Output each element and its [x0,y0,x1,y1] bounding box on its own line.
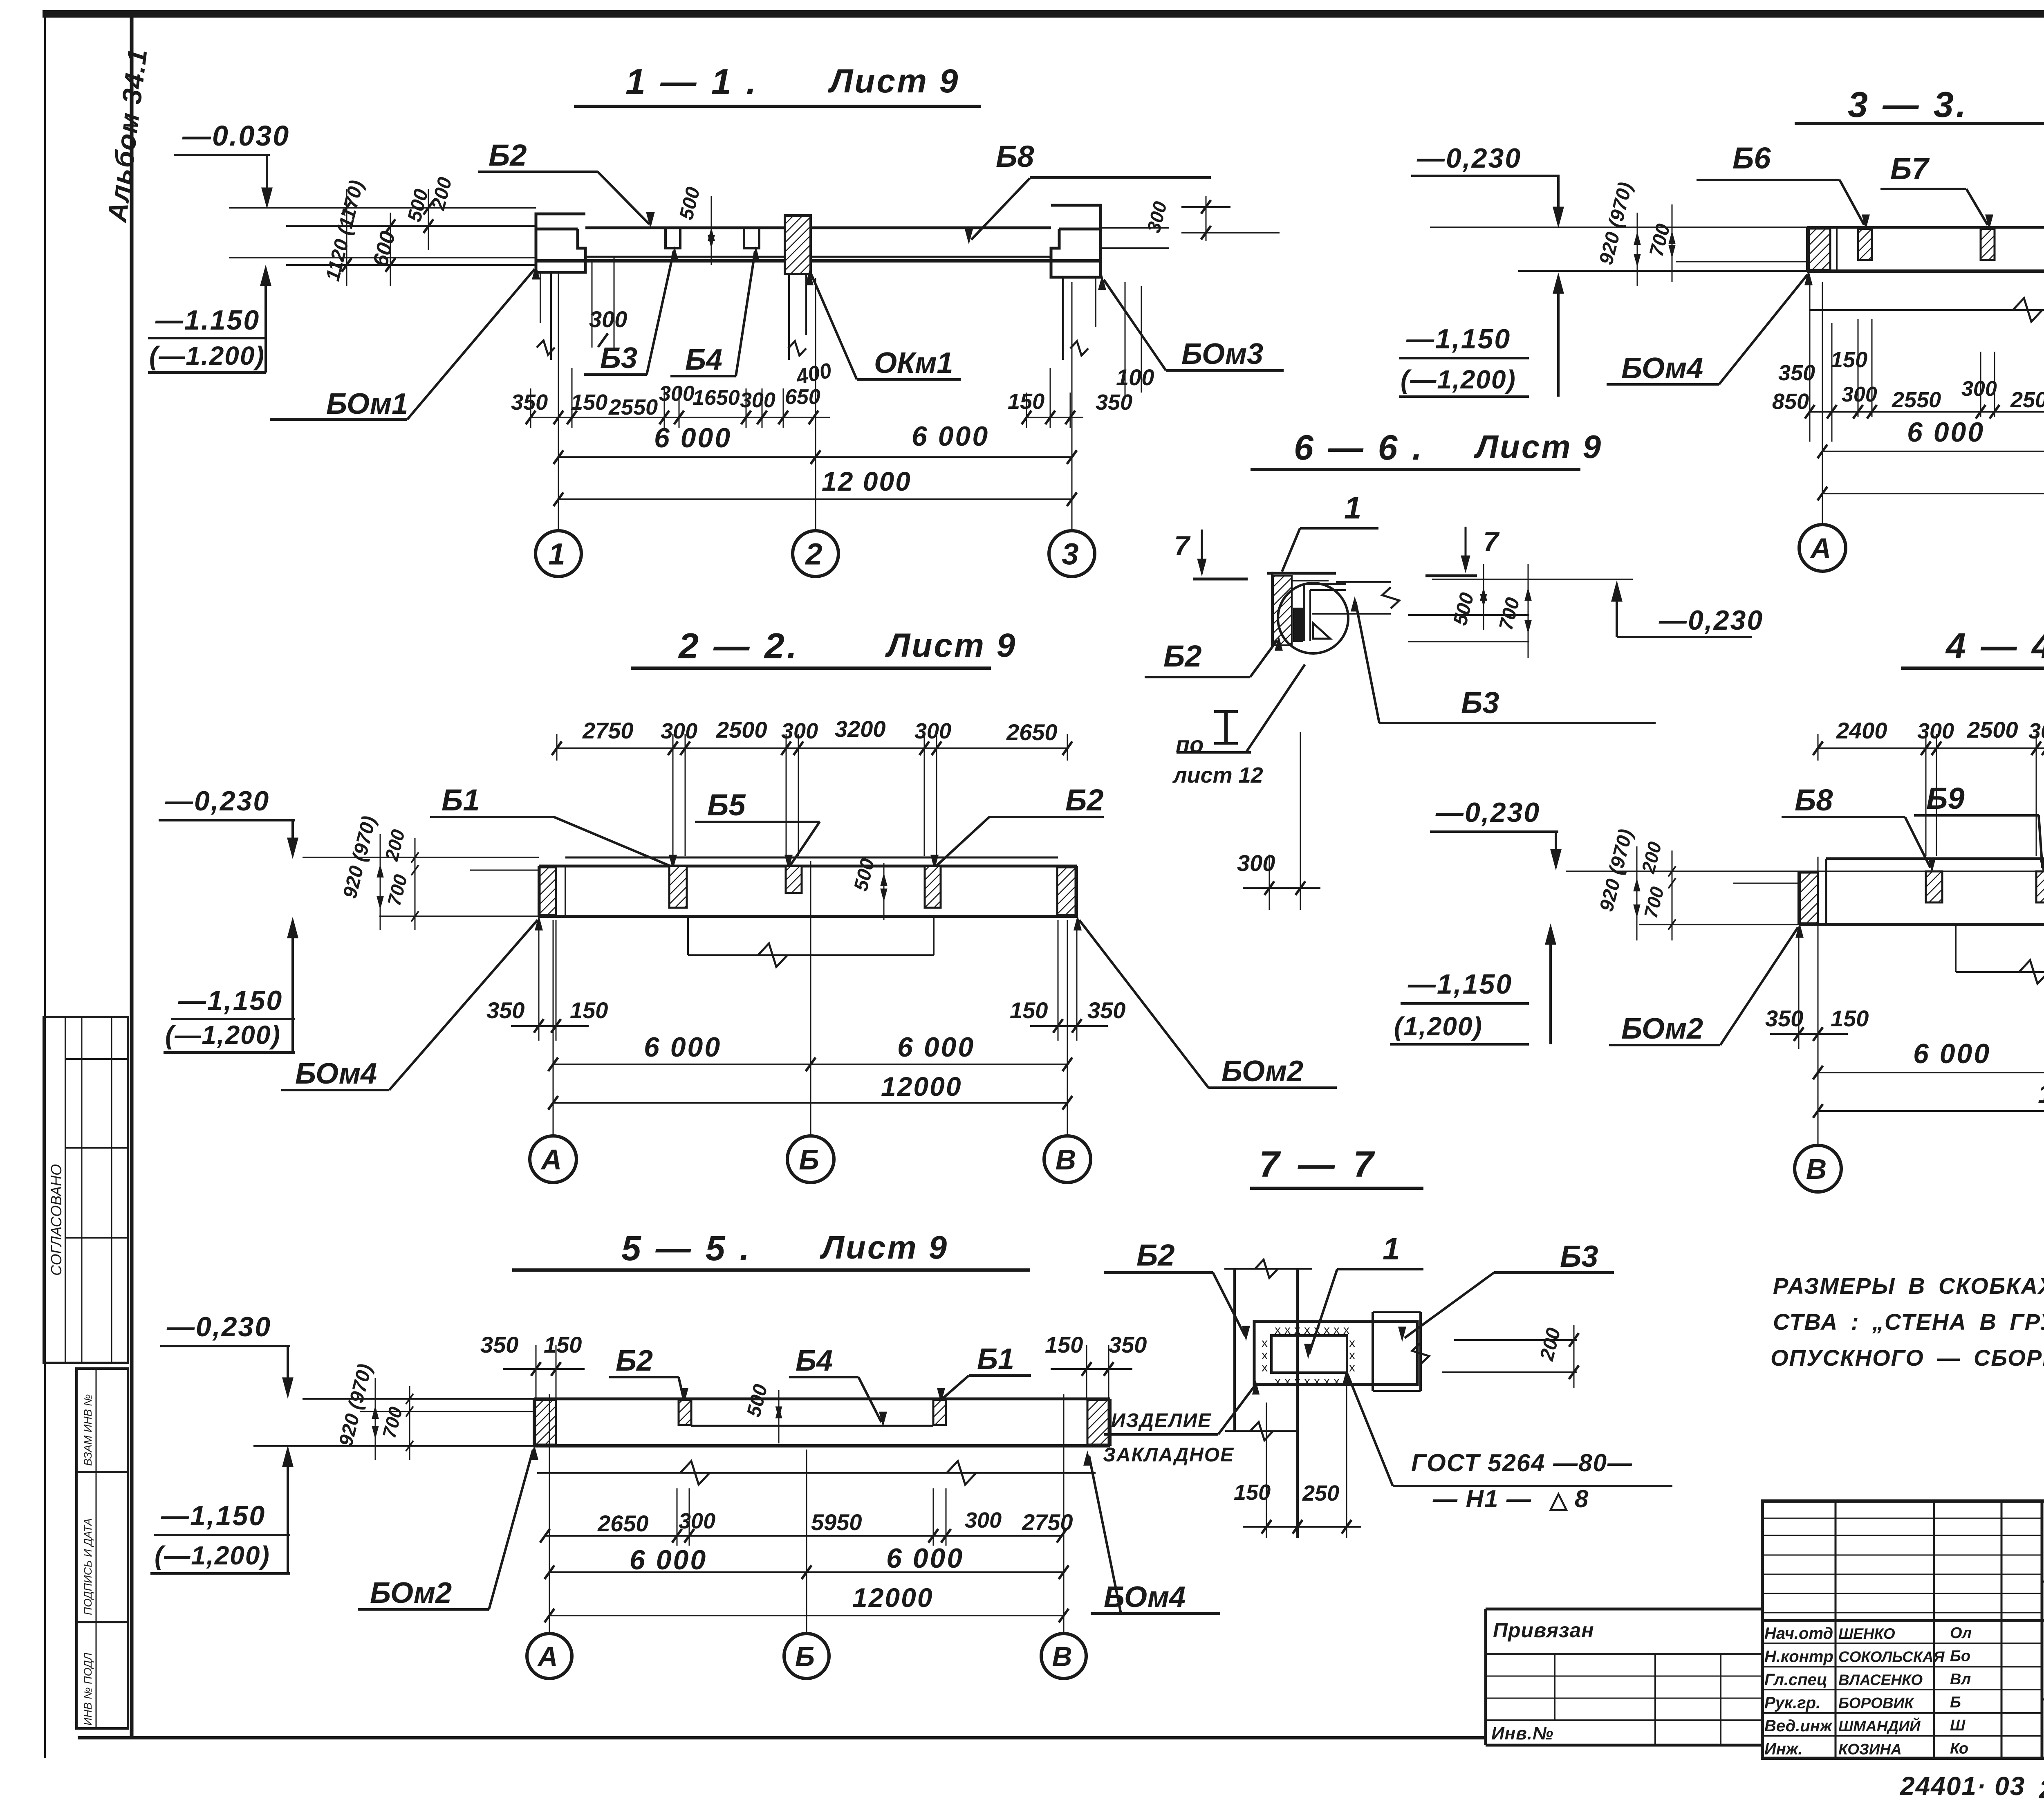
svg-text:А: А [1810,532,1831,564]
svg-text:Б4: Б4 [685,343,722,376]
detail 6-6 bracket [1267,572,1346,648]
svg-text:ИЗДЕЛИЕ: ИЗДЕЛИЕ [1111,1410,1212,1432]
beam 2-2 left hatch [540,867,556,915]
svg-text:x: x [1324,1323,1330,1337]
elevation -0.230 (2-2) [159,785,298,857]
top dim chain 2-2 [552,734,1072,856]
label БОм4 leader (2-2) [281,918,542,1090]
axis circle 1 [536,531,581,577]
elevation -0.030 text [182,120,290,152]
svg-text:Б2: Б2 [1136,1238,1175,1272]
signature table columns [1836,1501,2042,1758]
svg-text:350: 350 [1087,997,1125,1023]
view mark лист 12 [1172,763,1263,788]
dim 500 rotated (2-2) [850,856,887,920]
svg-text:x: x [1284,1375,1291,1388]
beam 2-2 recess bracket [688,916,934,967]
svg-text:x: x [1324,1375,1330,1388]
label Привязан [1493,1619,1594,1642]
svg-text:Бо: Бо [1950,1648,1970,1665]
description divider [2042,1699,2044,1701]
label БОм2 leader (5-5) [358,1447,538,1609]
svg-text:500: 500 [850,856,879,893]
beam 4-4 pocket Б8 [1926,871,1942,902]
beam 4-4 ext lines [1566,871,1799,925]
dim 6000 texts 2-2 [644,1032,975,1063]
label Б9 (4-4) [1914,781,2044,870]
svg-text:x: x [1349,1349,1355,1362]
svg-text:150: 150 [1831,348,1867,372]
svg-text:СОКОЛЬСКАЯ: СОКОЛЬСКАЯ [1838,1649,1945,1665]
svg-text:200: 200 [1536,1326,1565,1363]
beam 2-2 pocket Б1 [669,866,687,908]
label Б1 (5-5) [938,1343,1031,1401]
beam 1-1 bottom line [536,257,1100,261]
svg-text:x: x [1314,1323,1320,1337]
svg-text:—0.030: —0.030 [182,120,290,152]
dim line 6000 4-4 [1813,1066,2044,1079]
dim line 6000 2-2 [548,1057,1072,1071]
axis lines 2-2 [553,861,1067,1136]
svg-text:—0,230: —0,230 [1416,143,1522,174]
svg-text:x: x [1343,1323,1349,1337]
svg-text:БОм2: БОм2 [370,1577,452,1609]
svg-text:ШМАНДИЙ: ШМАНДИЙ [1838,1717,1921,1735]
svg-text:РАЗМЕРЫ В СКОБКАХ ДЛЯ СПОС: РАЗМЕРЫ В СКОБКАХ ДЛЯ СПОСОБОВ СТРОИТЕЛЬ… [1773,1273,2044,1299]
svg-text:Б3: Б3 [1461,686,1499,720]
dim 920 (970) rotated (2-2) [339,814,383,930]
svg-text:5950: 5950 [811,1509,862,1535]
svg-text:Б7: Б7 [1890,152,1930,186]
svg-text:2650: 2650 [1006,719,1058,745]
svg-text:150: 150 [1234,1480,1271,1505]
label БОм4 leader (5-5) [1084,1453,1220,1614]
section 4-4 title underline [1901,667,2044,670]
beam 1-1 top line [585,227,1051,229]
beam 3-3 break line [1809,298,2044,322]
svg-text:300: 300 [1961,377,1997,401]
svg-text:7: 7 [1483,526,1500,557]
svg-text:4 — 4 .: 4 — 4 . [1945,626,2044,666]
svg-text:920 (970): 920 (970) [1595,180,1636,267]
svg-text:Б3: Б3 [600,342,637,375]
svg-text:Б: Б [799,1144,819,1176]
beam 2-2 right hatch [1057,867,1076,915]
label БОм1 leader [270,267,539,420]
svg-text:150: 150 [1045,1332,1083,1358]
axis circle В (4-4) [1795,1145,1841,1192]
dim 100 near axis 3 [1116,282,1154,399]
elevation -1.150 (5-5) [150,1448,293,1573]
svg-text:—1,150: —1,150 [178,985,283,1016]
beam 4-4 recess bracket [1956,925,2044,984]
svg-text:СТВА : „СТЕНА В ГРУНТЕ” ;: СТВА : „СТЕНА В ГРУНТЕ” ; [1773,1309,2044,1335]
beam 5-5 break line [537,1461,1096,1485]
label Б4 (5-5) [789,1344,886,1425]
svg-text:Привязан: Привязан [1493,1619,1594,1642]
svg-text:150: 150 [1010,997,1048,1023]
svg-text:350: 350 [480,1332,518,1358]
margin cells grid [76,1369,128,1728]
svg-text:(—1,200): (—1,200) [165,1020,281,1050]
dim 920 (970) rotated (5-5) [335,1362,378,1460]
svg-text:БОм3: БОм3 [1181,338,1263,370]
label ГОСТ 5264-80 [1344,1371,1672,1513]
label Б3 leader [584,249,678,375]
svg-text:1120 (1170): 1120 (1170) [322,178,368,283]
label БОм2 leader (4-4) [1609,925,1803,1045]
label Б2 (1-1) [478,138,654,226]
svg-text:Ш: Ш [1950,1717,1966,1734]
beam 2-2 body [539,857,1077,916]
svg-text:—0,230: —0,230 [165,785,270,817]
svg-text:150: 150 [544,1332,582,1358]
svg-text:12000: 12000 [881,1071,962,1102]
dim 400 text [793,359,834,389]
svg-text:x: x [1304,1323,1310,1337]
label Б3 leader (7-7) [1399,1239,1614,1340]
dim 12000 text 2-2 [881,1071,962,1102]
svg-text:300: 300 [1842,383,1877,406]
svg-text:6 000: 6 000 [630,1544,707,1575]
beam 3-3 left hatch [1809,227,1837,271]
dim 350-150 left (4-4) [1765,927,1869,1049]
svg-text:5 — 5 .: 5 — 5 . [621,1229,752,1268]
svg-text:БОРОВИК: БОРОВИК [1838,1695,1914,1712]
svg-text:ОКм1: ОКм1 [874,347,953,379]
label БОм3 leader [1099,277,1284,370]
label ПОДПИСЬ И ДАТА [82,1518,94,1615]
svg-text:В: В [1052,1641,1072,1672]
wall pier axis 1 stubs [537,272,555,360]
svg-text:2500: 2500 [716,717,767,743]
svg-text:7 — 7: 7 — 7 [1259,1144,1378,1185]
attachment block grid [1486,1609,1762,1745]
dim 300 below wall 1 [589,257,627,348]
axis lines 4-4 [1818,857,2044,1145]
section 1-1 title underline [574,105,981,108]
svg-text:Б6: Б6 [1732,141,1771,175]
beam 3-3 body [1807,227,2044,271]
dim lines right 6-6 [1408,579,1633,642]
svg-text:В: В [1056,1144,1076,1176]
notes line 1 [1773,1273,2044,1299]
svg-text:x: x [1262,1336,1268,1350]
beam 5-5 left hatch [535,1400,556,1445]
svg-text:24401· 03: 24401· 03 [1900,1771,2025,1801]
dim line 12000 3-3 [1818,487,2044,500]
svg-text:Гл.спец: Гл.спец [1764,1671,1827,1689]
svg-text:6 000: 6 000 [644,1032,722,1063]
svg-text:Нач.отд: Нач.отд [1764,1625,1833,1643]
svg-text:x: x [1294,1323,1300,1337]
beam 3-3 pocket Б7 [1981,229,1995,260]
label ОКм1 leader [806,272,961,379]
svg-text:700: 700 [1495,595,1524,633]
svg-text:300: 300 [2028,719,2044,743]
beam 2-2 pocket Б5 [786,866,802,893]
svg-text:150: 150 [1008,389,1044,414]
elevation -0.230 (4-4) [1430,797,1561,868]
svg-text:—1.150: —1.150 [155,305,260,336]
svg-text:ПОДПИСЬ И ДАТА: ПОДПИСЬ И ДАТА [82,1518,94,1615]
axis lines 3-3 [1822,282,2044,525]
dim 300 (6-6) [1237,732,1320,910]
dim 500 pocket rotated [675,185,714,265]
svg-text:300: 300 [1917,719,1954,743]
svg-text:Б2: Б2 [1163,639,1202,673]
section 5-5 title underline [512,1268,1030,1272]
svg-text:Лист 9: Лист 9 [820,1229,948,1266]
section 7-7 title [1259,1144,1378,1185]
beam 1-1 right extension [1100,228,1169,248]
svg-text:Б2: Б2 [1065,783,1104,817]
elevation -1.150 (3-3) [1399,275,1563,397]
svg-text:Б9: Б9 [1926,781,1965,815]
dim 150-350 right (2-2) [1010,920,1125,1041]
svg-text:12 000: 12 000 [822,466,912,496]
beam 3-3 ext lines [1430,227,1807,271]
svg-text:ВЗАМ ИНВ №: ВЗАМ ИНВ № [82,1394,94,1466]
svg-text:Б1: Б1 [977,1343,1014,1376]
svg-text:700: 700 [1640,884,1668,920]
dim 6000 texts 1-1 [654,421,989,453]
dim 500 rotated [403,187,433,224]
elevation -0.230 (6-6) [1612,583,1764,637]
svg-text:250: 250 [1302,1481,1339,1506]
svg-text:150: 150 [1831,1005,1869,1031]
leader по I to circle [1246,664,1305,752]
dim texts row1 1-1 [511,382,1132,420]
svg-text:2650: 2650 [597,1510,649,1536]
dim line 6000 5-5 [545,1565,1069,1579]
svg-text:500: 500 [1449,590,1478,628]
dim line 12000 4-4 [1813,1104,2044,1118]
svg-text:Б2: Б2 [616,1344,653,1377]
axis circle А (2-2) [530,1136,576,1183]
svg-text:Рук.гр.: Рук.гр. [1764,1694,1820,1712]
wall pier axis 1 [536,214,585,272]
svg-text:350: 350 [511,390,548,415]
svg-text:1: 1 [1344,491,1361,525]
wall lines 7-7 [1224,1260,1312,1538]
label ИНВ № ПОДЛ [82,1652,94,1726]
svg-text:6 000: 6 000 [1913,1038,1991,1069]
svg-text:(—1,200): (—1,200) [155,1541,270,1570]
notes line 2 [1773,1309,2044,1335]
beam stub 6-6 [1312,582,1399,614]
notes line 3 [1771,1345,2044,1371]
title block top line [1762,1499,2044,1503]
section 2-2 title [678,626,1017,666]
beam 4-4 body [1799,859,2044,925]
svg-text:Б3: Б3 [1560,1239,1598,1273]
elevation -1.150 (4-4) [1390,926,1555,1044]
svg-text:Б5: Б5 [707,788,746,822]
svg-text:350: 350 [486,997,524,1023]
axis circle 3 [1049,531,1095,577]
label Б1 (2-2) [430,783,676,868]
svg-text:—1,150: —1,150 [1407,969,1513,1000]
archive number [1900,1771,2044,1804]
axis circle А (5-5) [527,1634,572,1679]
dim 150-250 (7-7) [1234,1385,1361,1538]
dim 6000 texts 4-4 [1913,1038,2044,1069]
dim line 6000 3-3 [1818,444,2044,458]
svg-text:6 000: 6 000 [912,421,989,452]
svg-text:Лист 9: Лист 9 [828,63,959,100]
dim 200 rotated [427,175,456,213]
label Б3 leader (6-6) [1351,599,1656,723]
svg-text:300: 300 [965,1508,1002,1533]
label Б4 leader [670,249,759,376]
beam 4-4 pocket Б9 [2036,871,2044,902]
callout 1 (6-6) [1282,491,1378,572]
svg-text:КОЗИНА: КОЗИНА [1838,1741,1902,1758]
svg-text:Лист 9: Лист 9 [1474,429,1602,465]
label Б8 (4-4) [1782,783,1935,870]
signature table name rows [1762,1620,2044,1736]
section 6-6 title [1294,428,1602,467]
svg-text:21: 21 [2039,1775,2044,1804]
dim 500 rotated (6-6) [1449,564,1486,630]
label СОГЛАСОВАНО [48,1164,65,1276]
label Б2 (5-5) [609,1344,688,1401]
svg-text:x: x [1349,1336,1355,1350]
svg-text:— Н1 —: — Н1 — [1432,1485,1532,1513]
elevation -0.230 (5-5) [160,1311,293,1396]
section 4-4 title [1945,626,2044,666]
dim 12000 text 5-5 [852,1582,934,1613]
svg-text:2750: 2750 [1022,1509,1073,1535]
elevation -0.230 text (3-3) [1416,143,1522,174]
svg-text:300: 300 [589,306,627,332]
svg-text:500: 500 [743,1382,772,1419]
svg-text:350: 350 [1109,1332,1147,1358]
top dim texts 4-4 [1836,717,2044,743]
svg-text:200: 200 [1637,839,1665,875]
svg-text:(—1,200): (—1,200) [1401,365,1516,394]
svg-text:Б: Б [1950,1694,1961,1711]
label ИЗДЕЛИЕ ЗАКЛАДНОЕ [1103,1383,1259,1466]
svg-text:Ол: Ол [1950,1625,1972,1642]
svg-text:—0,230: —0,230 [1659,605,1764,636]
svg-text:лист 12: лист 12 [1172,763,1263,788]
label Б2 leader (6-6) [1145,638,1282,677]
document number underline [2042,1581,2044,1583]
svg-text:СОГЛАСОВАНО: СОГЛАСОВАНО [48,1164,65,1276]
dim 700 rotated (6-6) [1495,564,1531,658]
section 7-7 title underline [1250,1187,1423,1190]
svg-text:150: 150 [571,390,607,415]
svg-text:x: x [1334,1323,1340,1337]
svg-text:1: 1 [548,537,565,571]
svg-text:Б4: Б4 [796,1344,833,1377]
beam 5-5 right hatch [1087,1400,1109,1445]
svg-text:2750: 2750 [582,718,634,743]
svg-text:350: 350 [1765,1005,1803,1031]
dim 200 rotated (4-4) [1637,839,1665,875]
svg-text:350: 350 [1096,390,1132,415]
section 6-6 title underline [1251,468,1580,471]
embedded plate inner weld (7-7) [1262,1323,1355,1388]
title block outer [1762,1501,2044,1758]
svg-text:2550: 2550 [608,395,658,420]
top dim chain 4-4 [1813,734,2044,881]
svg-text:—1,150: —1,150 [1406,323,1511,355]
beam end right (7-7) [1373,1312,1429,1391]
svg-text:Б8: Б8 [1795,783,1833,817]
detail 6-6 circle [1278,583,1348,653]
svg-text:Н.контр: Н.контр [1764,1648,1833,1666]
dim line 6000 1-1 [554,450,1077,464]
label Б8 (1-1) [965,139,1211,242]
svg-text:300: 300 [659,382,695,406]
svg-text:300: 300 [740,388,775,412]
svg-text:БОм2: БОм2 [1221,1055,1303,1088]
beam pocket Б4 [744,228,759,248]
dim 12000 text 1-1 [822,466,912,496]
svg-text:6 — 6 .: 6 — 6 . [1294,428,1424,467]
callout 1 (7-7) [1305,1232,1423,1357]
beam 2-2 pocket Б2 [925,866,941,908]
svg-text:ШЕНКО: ШЕНКО [1838,1625,1895,1642]
svg-text:Б1: Б1 [442,783,480,817]
svg-text:Б: Б [795,1641,815,1672]
label Инв № [1491,1723,1553,1744]
svg-text:6 000: 6 000 [654,422,732,453]
svg-text:x: x [1262,1349,1268,1362]
column ОКм1 stubs [788,274,806,360]
axis circle Б (5-5) [784,1634,829,1679]
dim 300 right rotated [1143,196,1280,241]
dim 700 rotated (2-2) [383,838,419,930]
axis circle 2 [793,531,838,577]
svg-text:—1,150: —1,150 [161,1500,266,1531]
dim 500 rotated (5-5) [743,1382,781,1443]
svg-text:x: x [1334,1375,1340,1388]
view mark по I [1176,711,1251,757]
label Б7 (3-3) [1880,152,1992,227]
svg-text:1: 1 [1383,1232,1400,1266]
svg-text:6 000: 6 000 [1907,417,1985,448]
axis circle А (3-3) [1799,525,1846,571]
dim 150-350 right (5-5) [1045,1332,1147,1400]
beam 5-5 pocket Б1 [933,1400,946,1425]
svg-text:ЗАКЛАДНОЕ: ЗАКЛАДНОЕ [1103,1444,1234,1466]
sheet left edge line [44,11,46,1758]
dim texts 5-5 [597,1508,1073,1536]
dim 200 rotated (2-2) [381,827,409,863]
svg-text:300: 300 [661,719,697,743]
svg-text:В: В [1806,1153,1827,1185]
svg-text:3200: 3200 [835,716,886,742]
dim 6000 texts 3-3 [1907,417,2044,448]
dim 350-150 left (2-2) [486,920,608,1041]
svg-text:x: x [1284,1323,1291,1337]
dim chain 5-5 [540,1488,1067,1546]
section 1-1 title [625,61,959,102]
wall pier axis 3 [1051,205,1100,277]
svg-text:x: x [1275,1375,1281,1388]
svg-text:920 (970): 920 (970) [335,1362,376,1448]
vertical dim lines left slab [342,189,433,286]
axis lines 1-1 [558,272,1072,530]
axis circle Б (2-2) [787,1136,834,1183]
svg-text:2500: 2500 [1967,717,2018,743]
label Б2 leader (7-7) [1104,1238,1249,1339]
dim 350-150 left (5-5) [480,1332,585,1400]
